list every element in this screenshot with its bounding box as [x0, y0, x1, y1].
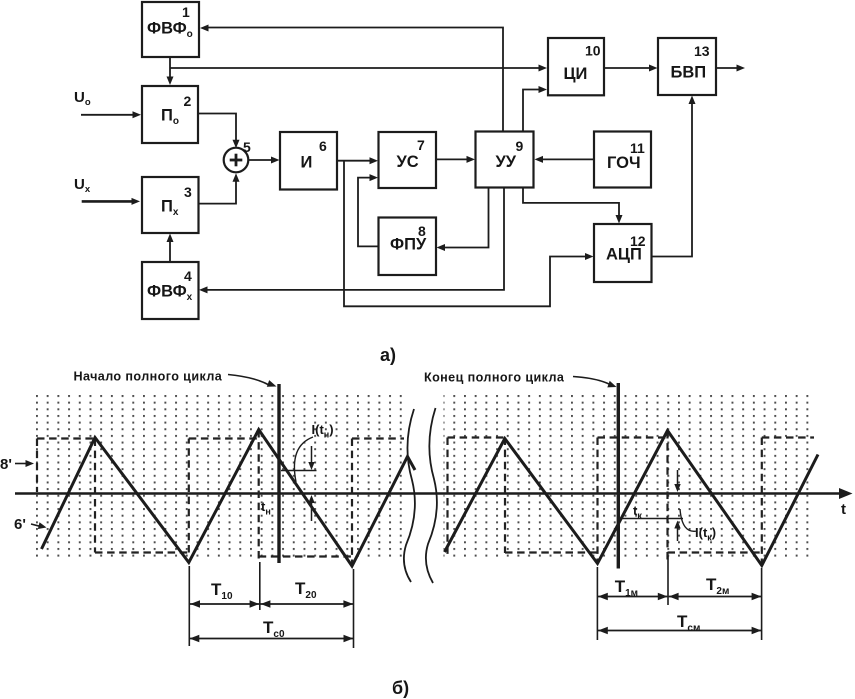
cycle end marker line: [617, 383, 620, 569]
arrowhead into P-o top: [167, 77, 174, 86]
arrowhead into BVP bottom: [689, 96, 696, 105]
svg-text:1: 1: [182, 4, 190, 20]
block 12 ACP: [594, 224, 652, 282]
I(t-k) upper dim arrow: [677, 470, 679, 487]
arrowhead into US lower: [370, 174, 379, 181]
dashed square wave 8' right section: [448, 431, 815, 565]
wire I to US: [337, 160, 371, 162]
cycle start marker line: [277, 384, 280, 563]
arrowhead into I: [271, 157, 280, 164]
svg-text:5: 5: [243, 139, 251, 155]
plus sign in summing junction: [230, 154, 243, 167]
dimension T20: [260, 603, 353, 605]
wire BVP output: [716, 67, 737, 69]
svg-text:I(tн): I(tн): [312, 422, 334, 440]
block 2 P-o: [142, 86, 198, 143]
block 3 P-x: [142, 177, 199, 233]
arrowhead U-x into P-x: [132, 198, 141, 205]
svg-text:9: 9: [516, 138, 524, 154]
wire UU bottom to FVF-x right input: [207, 188, 504, 290]
extension line peak2 divider: [259, 562, 261, 610]
svg-text:ГОЧ: ГОЧ: [607, 154, 641, 172]
wire UU bottom to ACP top input: [523, 188, 619, 217]
wire summator to I: [248, 159, 272, 161]
I(t-n) lower dim arrow: [311, 500, 313, 521]
arrowhead into FPU right: [437, 244, 446, 251]
dotted background left: [35, 394, 402, 561]
svg-text:8: 8: [418, 223, 426, 239]
svg-text:t: t: [841, 501, 846, 518]
svg-text:13: 13: [694, 43, 710, 59]
svg-text:а): а): [380, 345, 396, 365]
wire FVF-x top to P-x bottom: [169, 240, 171, 262]
svg-text:ФВФх: ФВФх: [147, 283, 193, 304]
block 13 BVP: [658, 38, 716, 95]
arrowhead into CI upper input: [539, 65, 548, 72]
wire P-x output to summator bottom: [199, 181, 237, 204]
svg-text:ЦИ: ЦИ: [564, 65, 588, 83]
arrowhead into FVF-x right: [199, 286, 208, 293]
triangular wave 6' left section: [42, 430, 416, 567]
leader curve I(t-n): [294, 437, 313, 482]
arrowhead U-o into P-o: [133, 111, 142, 118]
svg-text:ФВФо: ФВФо: [147, 20, 193, 41]
arrowhead into CI lower input: [539, 86, 548, 93]
svg-text:7: 7: [417, 137, 425, 153]
svg-text:Конец полного цикла: Конец полного цикла: [424, 371, 565, 385]
wire UU bottom to FPU right input: [444, 188, 489, 248]
break squiggle 2: [426, 408, 437, 583]
wire GOCH to UU right input: [542, 158, 594, 160]
block 7 US: [379, 132, 437, 188]
arrowhead into FVF-o right: [200, 25, 209, 32]
arrowhead into UU right: [535, 156, 544, 163]
block numbers: [182, 4, 710, 284]
svg-text:I(tк): I(tк): [695, 525, 716, 543]
wire UU top to FVF-o right input: [207, 28, 503, 132]
wire FPU output loop to US lower input: [358, 178, 379, 247]
wire block1 bottom to block2 top: [169, 57, 171, 80]
svg-text:б): б): [392, 678, 409, 698]
extension line right peak divider: [667, 556, 669, 605]
summing junction 5: [224, 148, 249, 173]
dimension Tcm: [598, 630, 761, 632]
leader to end marker: [573, 377, 610, 385]
dashed square wave 8' left section: [37, 430, 404, 566]
block 6 I: [280, 132, 337, 190]
wire UU top to CI lower input: [523, 90, 540, 132]
arrowhead into UU left: [467, 156, 476, 163]
block 11 GOCH: [594, 132, 651, 188]
arrowhead into BVP left: [649, 65, 658, 72]
svg-text:10: 10: [585, 43, 601, 59]
block 10 CI: [548, 38, 604, 95]
wire U-o input arrow: [81, 114, 133, 116]
dimension T10: [190, 603, 259, 605]
arrowhead into ACP left: [585, 253, 594, 260]
triangular wave 6' right section: [445, 431, 819, 566]
wire CI to BVP: [604, 67, 650, 69]
svg-text:БВП: БВП: [671, 64, 707, 82]
extension line right valley1: [596, 567, 598, 640]
svg-text:12: 12: [630, 233, 646, 249]
wire US to UU: [436, 158, 468, 160]
arrowhead into P-x bottom: [167, 234, 174, 243]
arrow 6' pointer: [31, 524, 40, 526]
dimension T1m: [598, 596, 668, 598]
wire junction to CI input (y=68): [170, 67, 540, 69]
block 8 FPU: [379, 218, 437, 276]
wire U-x input arrow: [82, 200, 132, 203]
axis arrowhead: [839, 488, 853, 499]
block 1 FVF-o: [142, 2, 199, 57]
svg-text:Начало полного цикла: Начало полного цикла: [74, 370, 223, 384]
svg-text:И: И: [301, 154, 313, 172]
svg-text:8': 8': [0, 456, 12, 473]
wire branch to ACP left input: [344, 161, 586, 307]
svg-text:УС: УС: [397, 153, 419, 171]
svg-text:2: 2: [184, 93, 192, 109]
svg-text:6: 6: [319, 138, 327, 154]
block 4 FVF-x: [142, 262, 199, 319]
break squiggle 1: [404, 409, 415, 582]
arrowhead BVP output end: [737, 65, 746, 72]
dotted background right: [444, 394, 815, 561]
wire P-o output to summator top: [198, 114, 236, 142]
reference line I(t-n): [281, 470, 317, 472]
dimension Tc0: [189, 638, 353, 640]
arrowhead into summator bottom: [233, 173, 240, 182]
extension line right valley2: [761, 568, 763, 640]
svg-text:4: 4: [184, 268, 192, 284]
I(t-n) upper dim arrow: [311, 446, 313, 465]
block labels: [147, 20, 706, 304]
wire ACP output to BVP bottom input: [652, 103, 693, 257]
arrowhead into ACP top: [616, 215, 623, 224]
extension line valley1: [188, 566, 190, 646]
svg-text:11: 11: [630, 140, 645, 156]
dimension T2m: [669, 596, 762, 598]
svg-text:3: 3: [184, 184, 192, 200]
arrow 8' pointer: [15, 463, 27, 465]
svg-text:УУ: УУ: [496, 153, 517, 171]
arrowhead into summator top: [233, 140, 240, 149]
time axis: [15, 492, 845, 494]
I(t-k) lower dim arrow: [677, 526, 679, 542]
svg-text:6': 6': [14, 516, 26, 533]
block 9 UU: [476, 132, 534, 188]
leader curve I(t-k): [680, 509, 697, 531]
leader to start marker: [228, 375, 268, 385]
reference line I(t-k): [619, 518, 683, 520]
extension line valley2: [353, 569, 355, 648]
arrowhead into US main: [370, 157, 379, 164]
